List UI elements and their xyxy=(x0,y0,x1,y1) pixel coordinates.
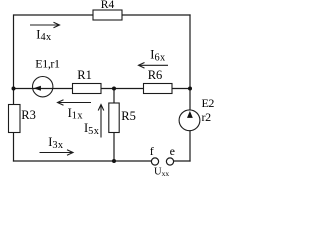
wire right lower segment xyxy=(189,131,191,162)
svg-text:I4x: I4x xyxy=(36,27,52,43)
wire bottom-right segment xyxy=(174,160,191,162)
svg-text:Uxx: Uxx xyxy=(154,166,169,177)
svg-text:f: f xyxy=(150,144,154,158)
current arrow I4x xyxy=(30,22,60,28)
wire top-right segment xyxy=(122,14,191,16)
source E1,r1 xyxy=(33,77,53,97)
svg-text:r2: r2 xyxy=(202,110,212,124)
wire middle segment R1 to R6 xyxy=(101,88,144,90)
node D (R5 / bottom wire junction) xyxy=(112,159,116,163)
wire bottom-left segment xyxy=(13,160,152,162)
svg-text:R4: R4 xyxy=(101,0,115,11)
wire R5 lower stem xyxy=(113,133,115,162)
terminal f xyxy=(151,158,158,165)
svg-text:E1,r1: E1,r1 xyxy=(35,56,60,70)
current arrow I1x xyxy=(58,100,92,106)
resistor R5 xyxy=(109,103,119,133)
wire left upper segment xyxy=(13,14,15,104)
svg-text:I3x: I3x xyxy=(48,135,64,151)
svg-text:I1x: I1x xyxy=(68,106,84,122)
node A (left wire / middle wire junction) xyxy=(12,87,16,91)
wire R5 upper stem xyxy=(113,89,115,104)
resistor R3 xyxy=(9,105,21,133)
resistor R4 xyxy=(93,10,122,20)
wire middle segment from node A through E1 to R1 xyxy=(14,88,73,90)
svg-text:I6x: I6x xyxy=(150,48,166,64)
svg-text:R6: R6 xyxy=(148,68,163,82)
wire right upper segment xyxy=(189,14,191,110)
node C (right wire / middle wire junction) xyxy=(188,87,192,91)
current arrow I6x xyxy=(139,63,169,69)
svg-text:R3: R3 xyxy=(21,108,36,122)
current arrow I3x xyxy=(40,150,74,156)
wire middle segment R6 to node C xyxy=(172,88,190,90)
svg-text:R5: R5 xyxy=(121,109,136,123)
wire top-left segment xyxy=(14,14,94,16)
svg-text:I5x: I5x xyxy=(84,121,100,137)
svg-text:E2: E2 xyxy=(202,96,215,110)
svg-text:e: e xyxy=(170,144,175,158)
terminal e xyxy=(166,158,173,165)
resistor R1 xyxy=(73,84,102,94)
svg-text:R1: R1 xyxy=(77,68,92,82)
source E2,r2 xyxy=(179,110,200,131)
wire left lower segment xyxy=(13,133,15,162)
resistor R6 xyxy=(144,84,173,94)
node B (middle wire / R5 junction) xyxy=(112,87,116,91)
current arrow I5x xyxy=(98,105,104,138)
